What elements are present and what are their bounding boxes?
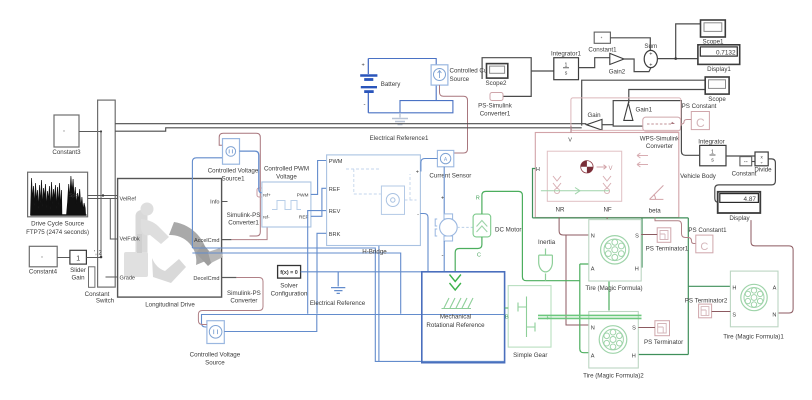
svg-text:S: S [632, 326, 636, 332]
block Controlled PWM Voltage [262, 166, 311, 228]
svg-text:H-Bridge: H-Bridge [362, 249, 387, 256]
wire Display area to right tire N (maroon) [751, 220, 793, 313]
svg-text:-: - [417, 212, 419, 218]
wire H-Bridge REV to ground bus [308, 211, 327, 314]
svg-text:WPS-Simulink: WPS-Simulink [640, 136, 680, 143]
svg-text:+: + [441, 196, 444, 202]
svg-text:Converter: Converter [646, 143, 673, 150]
ground Electrical Reference [310, 272, 366, 307]
svg-text:Sum: Sum [644, 43, 657, 50]
svg-text:A: A [773, 286, 777, 292]
svg-text:Constant4: Constant4 [29, 269, 58, 276]
svg-text:NR: NR [556, 207, 565, 214]
wire H-bridge minus to mech area [420, 214, 428, 272]
gain Slider Gain [70, 250, 87, 281]
constant PS Constant [682, 103, 717, 130]
wire motor minus down [443, 241, 445, 272]
svg-text:Tire (Magic Formula): Tire (Magic Formula) [585, 285, 642, 292]
svg-text:Scope: Scope [708, 96, 726, 103]
constant Constant1 [588, 32, 617, 53]
wire Gain input [602, 124, 613, 126]
svg-text:Vehicle Body: Vehicle Body [680, 173, 717, 180]
svg-text:PWM: PWM [297, 193, 309, 199]
wire CCS bottom stub [435, 85, 437, 101]
wire beta to PS Constant1 (maroon) [655, 218, 696, 244]
constant Constant3 [52, 115, 81, 156]
wire Gain1 up to Scope [629, 90, 705, 104]
svg-text:Rotational Reference: Rotational Reference [426, 322, 485, 329]
wire Gain1-rect to Integrator [681, 126, 699, 155]
svg-text:PS Terminator2: PS Terminator2 [685, 298, 728, 305]
svg-text:Battery: Battery [381, 81, 402, 88]
svg-text:Source: Source [205, 360, 225, 367]
svg-text:B: B [505, 315, 509, 321]
svg-text:AccelCmd: AccelCmd [194, 238, 220, 244]
svg-text:Mechanical: Mechanical [440, 314, 471, 321]
tire Tire (Magic Formula)2 [583, 312, 644, 380]
wire Integrator to Divide [726, 155, 755, 157]
svg-text:S: S [732, 313, 736, 319]
wire PWM to H-Bridge PWM [311, 161, 327, 195]
svg-text:N: N [772, 313, 776, 319]
port labels Longitudinal Driver [120, 197, 220, 309]
svg-text:Controlled Voltage: Controlled Voltage [190, 352, 241, 359]
wire DecelCmd stub [222, 277, 237, 279]
svg-text:+: + [362, 63, 365, 69]
svg-text:-: - [442, 253, 444, 259]
svg-text:f(x) = 0: f(x) = 0 [280, 270, 298, 276]
subsystem Mechanical Rotational Reference box [422, 272, 505, 363]
svg-text:Constant: Constant [732, 171, 757, 178]
wire Simple Gear B stub [505, 307, 509, 309]
svg-text:H: H [732, 286, 736, 292]
svg-text:VelRef: VelRef [120, 197, 137, 203]
wire long blue A to lower right [192, 248, 504, 361]
svg-text:PS Terminator: PS Terminator [644, 339, 683, 346]
constant small block [89, 267, 95, 288]
svg-text:V: V [568, 138, 572, 144]
tire Tire (Magic Formula) [585, 220, 642, 292]
svg-text:BRK: BRK [329, 232, 341, 238]
svg-text:Integrator1: Integrator1 [551, 51, 581, 58]
svg-text:Gain1: Gain1 [636, 107, 653, 114]
wire CCS to Current Sensor (maroon) [440, 85, 468, 153]
svg-text:Slider: Slider [70, 267, 86, 274]
svg-text:+: + [416, 170, 419, 176]
svg-text:+: + [649, 63, 652, 69]
block H-Bridge [327, 155, 421, 256]
display Display1 [698, 45, 740, 73]
svg-text:Switch: Switch [96, 298, 115, 305]
svg-text:Controlled PWM: Controlled PWM [264, 166, 309, 173]
wire branch to VelFdbk [110, 199, 117, 240]
svg-text:A: A [591, 354, 595, 360]
wire Sum to Scope1 and Display1 [657, 24, 700, 59]
svg-text:REV: REV [329, 209, 341, 215]
block Drive Cycle Source [26, 172, 89, 236]
display Display [718, 192, 761, 222]
wire rectangle around Gain1 [613, 101, 681, 127]
scope Scope2 [486, 64, 508, 87]
svg-text:Scope2: Scope2 [486, 80, 508, 87]
svg-text:H: H [635, 267, 639, 273]
svg-text:Tire (Magic Formula)1: Tire (Magic Formula)1 [723, 334, 784, 341]
motor rotor icon [435, 214, 457, 241]
wire thick green axle over tires [538, 315, 642, 318]
wire H port to green chain [533, 169, 536, 218]
converter WPS-Simulink Converter [640, 117, 681, 150]
svg-text:0.7132: 0.7132 [716, 50, 736, 57]
wire REF to H-Bridge REF [311, 188, 327, 216]
svg-text:Constant3: Constant3 [52, 149, 81, 156]
svg-text:PS Constant1: PS Constant1 [688, 227, 727, 234]
wire Tire1 S to PS Terminator1 (maroon) [641, 234, 657, 236]
wire green Tire2 H [638, 354, 688, 356]
wire green H chain to Tire1 H [640, 218, 643, 267]
wire battery top to CCS [368, 59, 436, 65]
svg-text:Display1: Display1 [707, 66, 731, 73]
svg-text:H: H [632, 354, 636, 360]
scope Scope [705, 77, 729, 103]
wire CVS1 left down long [192, 158, 222, 248]
gain Gain2 [609, 53, 626, 75]
block Solver Configuration [271, 266, 308, 298]
svg-text:PWM: PWM [329, 159, 343, 165]
svg-text:C: C [696, 116, 705, 130]
terminator PS Terminator2 [685, 298, 728, 318]
constant Constant4 [29, 246, 58, 275]
wire Constant3 to switch column [79, 131, 101, 133]
wire long blue B [192, 253, 400, 314]
sensor Current Sensor [429, 150, 471, 179]
converter PS-Simulink Converter1 [478, 93, 513, 118]
wire Constant4 to Slider Gain [57, 257, 70, 259]
svg-text:FTP75 (2474 seconds): FTP75 (2474 seconds) [26, 229, 89, 236]
svg-text:ref-: ref- [263, 215, 270, 220]
svg-text:N: N [591, 234, 595, 240]
svg-text:Converter: Converter [230, 298, 257, 305]
wire PS Constant to WPS converter [681, 120, 692, 125]
svg-text:Inertia: Inertia [538, 239, 556, 246]
svg-text:Gain2: Gain2 [609, 69, 626, 76]
wire Gain2 to Sum [624, 59, 651, 72]
wire Solver Configuration to mech box [301, 271, 422, 273]
svg-text:Longitudinal Drive: Longitudinal Drive [145, 302, 195, 309]
battery Battery [360, 59, 401, 113]
wire CVS1 right to PWM ref+ [239, 151, 262, 193]
wire Grade [106, 276, 118, 278]
svg-text:Converter1: Converter1 [228, 220, 259, 227]
subsystem Longitudinal Driver [118, 179, 222, 298]
svg-text:A: A [591, 267, 595, 273]
wire H-bridge bottom down [378, 246, 380, 362]
svg-text:Electrical Reference: Electrical Reference [310, 300, 366, 307]
wire Constant to Divide [752, 161, 755, 163]
terminator PS Terminator [644, 321, 683, 346]
wire green H to right tire [688, 285, 730, 287]
wire ground bus bottom [202, 315, 505, 328]
wire CVS output to bus [224, 315, 316, 332]
scope Scope1 [701, 20, 726, 46]
wire Constant1 to Sum [610, 38, 650, 51]
divide Divide [754, 152, 772, 174]
wire green H chain down right [687, 218, 689, 355]
converter Simulink-PS Converter1 [227, 188, 266, 227]
wire green H chain horizontal [533, 217, 689, 219]
svg-text:C: C [477, 253, 481, 259]
svg-text:beta: beta [649, 208, 662, 215]
svg-text:Source1: Source1 [221, 176, 245, 183]
wire PS Terminator2 to right tire S (maroon) [712, 311, 731, 313]
wire Info stub [222, 201, 228, 203]
svg-text:Gain: Gain [71, 275, 85, 282]
wire DecelCmd to Simulink-PS Converter (maroon) [198, 278, 263, 325]
svg-text:Divide: Divide [754, 167, 772, 174]
inertia Inertia [538, 239, 556, 281]
svg-text:s: s [565, 71, 568, 77]
block Vehicle Body [535, 133, 679, 218]
svg-text:1: 1 [76, 255, 80, 262]
wire H-Bridge BRK to ground bus [317, 233, 327, 313]
svg-text:VelFdbk: VelFdbk [120, 237, 140, 243]
svg-text:Spd: Spd [69, 193, 78, 199]
svg-text:DecelCmd: DecelCmd [193, 276, 219, 282]
source Controlled Voltage Source1 [208, 139, 259, 183]
svg-text:Converter1: Converter1 [480, 111, 511, 118]
terminator PS Terminator1 [646, 228, 689, 253]
gain Gain [586, 112, 602, 130]
wire NF down (maroon) [606, 218, 608, 220]
wire Tire2 S to PS Terminator (maroon) [638, 327, 655, 329]
wire dashed motor to DC Motor [457, 226, 473, 228]
ground Electrical Reference1 [370, 113, 429, 142]
wire AccelCmd stub [222, 239, 232, 241]
annotation pink rect above Vehicle Body [571, 98, 681, 130]
gain Gain1 [624, 103, 653, 120]
svg-text:DC Motor: DC Motor [495, 227, 521, 234]
wire long double line from switch to Gain [115, 123, 586, 125]
svg-text:', 2: ', 2 [94, 251, 102, 257]
wire Slider Gain to switch [86, 257, 101, 259]
wire Drive Cycle Source to VelRef (double line) [88, 196, 118, 199]
svg-text:s: s [711, 158, 714, 164]
mech rotational reference icon [426, 275, 485, 330]
constant Constant [732, 157, 757, 178]
wire NR to tires (maroon) [559, 218, 589, 326]
block DC Motor (mechanical) [473, 196, 521, 259]
svg-text:PS Constant: PS Constant [682, 103, 717, 110]
svg-text:--: -- [744, 159, 748, 165]
wire Current Sensor bottom to motor [443, 167, 445, 218]
wire Scope2 rectangle loop [482, 58, 531, 97]
svg-text:ref+: ref+ [263, 193, 271, 198]
wire to Scope horizontal [582, 80, 706, 125]
wire DC Motor C to mech reference (green) [455, 237, 482, 272]
switch tall block [98, 100, 116, 287]
svg-text:PS-Simulink: PS-Simulink [478, 103, 513, 110]
svg-text:Current Sensor: Current Sensor [429, 173, 471, 180]
svg-text:C: C [700, 241, 708, 253]
wire Simulink-PS Converter1 to Controlled Voltage Source1 [219, 133, 260, 236]
svg-text:+: + [649, 52, 652, 58]
svg-text:V: V [609, 166, 613, 172]
wire green tire A chain [580, 264, 589, 353]
svg-text:Display: Display [729, 215, 750, 222]
wire DC Motor R to drivetrain (green) [482, 191, 580, 280]
svg-text:Solver: Solver [280, 283, 298, 290]
svg-text:Voltage: Voltage [276, 174, 297, 181]
wire Integrator1 to Gain2 [579, 58, 610, 68]
svg-text:N: N [591, 326, 595, 332]
integrator Integrator [698, 139, 726, 166]
wire V port stub (maroon) [570, 126, 572, 133]
svg-text:Integrator: Integrator [698, 139, 724, 146]
sum Sum [644, 43, 657, 69]
wire Divide to Display [715, 159, 776, 202]
svg-text:REF: REF [329, 187, 341, 193]
svg-text:REF: REF [299, 215, 309, 221]
svg-text:Grade: Grade [120, 276, 136, 282]
svg-text:Gain: Gain [587, 112, 601, 119]
svg-text:Configuration: Configuration [271, 291, 308, 298]
constant PS Constant1 [688, 227, 727, 253]
wire battery bottom loop [368, 101, 453, 113]
integrator Integrator1 [551, 51, 581, 80]
wire to Integrator1 [531, 70, 554, 72]
svg-text:Controlled Voltage: Controlled Voltage [208, 168, 259, 175]
svg-text:PS Terminator1: PS Terminator1 [646, 246, 689, 253]
svg-text:S: S [635, 234, 639, 240]
svg-text:Drive Cycle Source: Drive Cycle Source [31, 221, 85, 228]
svg-text:-: - [364, 102, 366, 108]
svg-text:Info: Info [210, 200, 219, 206]
svg-text:Simulink-PS: Simulink-PS [227, 290, 261, 297]
svg-text:4.87: 4.87 [744, 196, 757, 203]
svg-text:H: H [536, 167, 540, 173]
svg-text:NF: NF [603, 207, 611, 214]
svg-text:Tire (Magic Formula)2: Tire (Magic Formula)2 [583, 373, 644, 380]
source Controlled Current Source [431, 65, 488, 85]
svg-text:R: R [476, 196, 480, 202]
wire AccelCmd to Simulink-PS Converter1 (PS maroon) [231, 196, 267, 240]
svg-text:Source: Source [450, 76, 470, 83]
source Controlled Voltage Source [190, 321, 241, 367]
svg-text:Simulink-PS: Simulink-PS [227, 212, 261, 219]
svg-text:Constant1: Constant1 [588, 47, 617, 54]
wire green between tires [608, 281, 610, 311]
wire vertical inside switch [100, 132, 102, 258]
driver figure icon [124, 203, 223, 284]
wire Current Sensor to H-Bridge plus [420, 159, 437, 172]
gear Simple Gear [505, 286, 551, 359]
svg-text:Simple Gear: Simple Gear [513, 352, 547, 359]
tire Tire (Magic Formula)1 [723, 271, 784, 340]
